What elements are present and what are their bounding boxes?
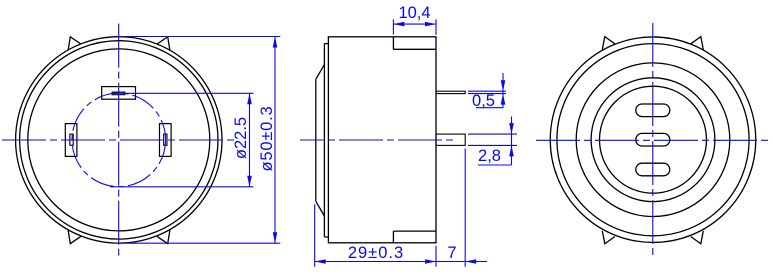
dim dia22.5 bottom arrow	[247, 176, 252, 187]
dim dia50 bottom arrow	[273, 232, 278, 243]
dim 10.4 right extension line	[435, 19, 437, 35]
svg-text:7: 7	[447, 244, 456, 262]
side view top pin	[436, 91, 465, 93]
right view fourth circle	[591, 78, 715, 202]
dim dia22.5 bottom extension line	[110, 186, 254, 188]
side view front face	[315, 79, 317, 201]
side view body rectangle	[328, 37, 436, 243]
left view left pin mark	[70, 134, 73, 145]
svg-text:ø22.5: ø22.5	[232, 117, 250, 159]
dim 29 right arrow	[425, 259, 436, 264]
dim 10.4 dimension line	[393, 23, 436, 25]
right view bottom-right tab	[691, 231, 704, 244]
right view middle sound slot	[636, 133, 670, 146]
dim dia22.5 dimension line	[249, 93, 251, 187]
left view bottom-right tab	[157, 230, 170, 244]
dim 0.5 upper extension line	[468, 90, 506, 92]
right view top sound slot	[636, 104, 670, 117]
side view center pin	[436, 134, 465, 145]
side view horizontal centerline	[300, 139, 456, 141]
dim 2.8 shelf	[478, 164, 512, 166]
svg-text:ø50±0.3: ø50±0.3	[258, 105, 276, 171]
right view horizontal centerline	[536, 139, 769, 141]
dim 0.5 lower extension line	[468, 93, 506, 95]
side view top-right notch horizontal	[393, 48, 436, 50]
right view third circle	[576, 63, 730, 217]
left view top-left tab	[68, 37, 81, 51]
side view top-right notch vertical	[392, 37, 394, 50]
right view second circle	[557, 44, 749, 236]
dim 0.5 down arrow	[501, 80, 506, 91]
svg-text:29±0.3: 29±0.3	[348, 244, 404, 262]
left view horizontal centerline	[2, 139, 235, 141]
left view right pin slot	[160, 124, 172, 157]
dim 2.8 arrow stem	[511, 117, 513, 166]
right view fifth circle	[600, 86, 707, 193]
dim 10.4 left arrow	[393, 22, 404, 27]
dim dia50 bottom extension line	[120, 242, 281, 244]
dim 0.5 shelf	[476, 107, 503, 109]
side view bottom-right notch vertical	[392, 231, 394, 243]
dim dia50 top arrow	[273, 37, 278, 48]
side view bottom-right notch horizontal	[393, 230, 436, 232]
left view top pin mark	[112, 92, 125, 95]
left view outer circle	[16, 37, 222, 243]
dim dia50 dimension line	[274, 37, 276, 244]
dim dia50 top extension line	[120, 36, 281, 38]
right view top-right tab	[691, 37, 704, 50]
dim 29 left extension line	[314, 204, 316, 266]
side view front chamfer bottom	[316, 201, 325, 216]
side view rim step bottom connector	[324, 236, 328, 238]
right view bottom-left tab	[602, 231, 615, 244]
left view right pin mark	[164, 134, 167, 145]
dim 0.5 arrow stem	[502, 73, 504, 108]
dim 10.4 left extension line	[392, 19, 394, 34]
right view outer circle	[550, 37, 756, 243]
bottom dimension line	[315, 261, 487, 263]
left view top-right tab	[157, 37, 170, 51]
left view top pin slot	[102, 87, 136, 100]
svg-text:2,8: 2,8	[478, 147, 501, 165]
left view bottom-left tab	[68, 230, 81, 244]
dim 29 right extension line	[435, 246, 437, 267]
left view inner circle	[28, 49, 210, 231]
left view vertical centerline	[118, 24, 120, 256]
left view left pin slot	[65, 124, 77, 157]
dim 2.8 up arrow	[509, 145, 514, 156]
dim 2.8 lower extension line	[468, 144, 517, 146]
left view second circle	[20, 41, 218, 239]
dim dia22.5 top extension line	[113, 92, 254, 94]
svg-text:0,5: 0,5	[472, 92, 495, 110]
dim 2.8 down arrow	[509, 123, 514, 134]
dim 29 left arrow	[315, 259, 326, 264]
left view pin circle dia 22.5 dashed	[72, 93, 166, 187]
dim 7 extension line	[464, 149, 466, 267]
svg-text:10,4: 10,4	[398, 4, 430, 22]
side view front chamfer top	[316, 65, 325, 80]
right view vertical centerline	[652, 23, 654, 256]
side view rim step top connector	[324, 43, 328, 45]
dim 10.4 right arrow	[425, 22, 436, 27]
right view top-left tab	[602, 37, 615, 50]
right view bottom sound slot	[636, 163, 670, 176]
dim 0.5 up arrow	[501, 94, 506, 105]
dim dia22.5 top arrow	[247, 93, 252, 104]
dim 7 arrow	[465, 259, 476, 264]
dim 2.8 upper extension line	[468, 133, 517, 135]
side view rim step line	[323, 44, 325, 237]
